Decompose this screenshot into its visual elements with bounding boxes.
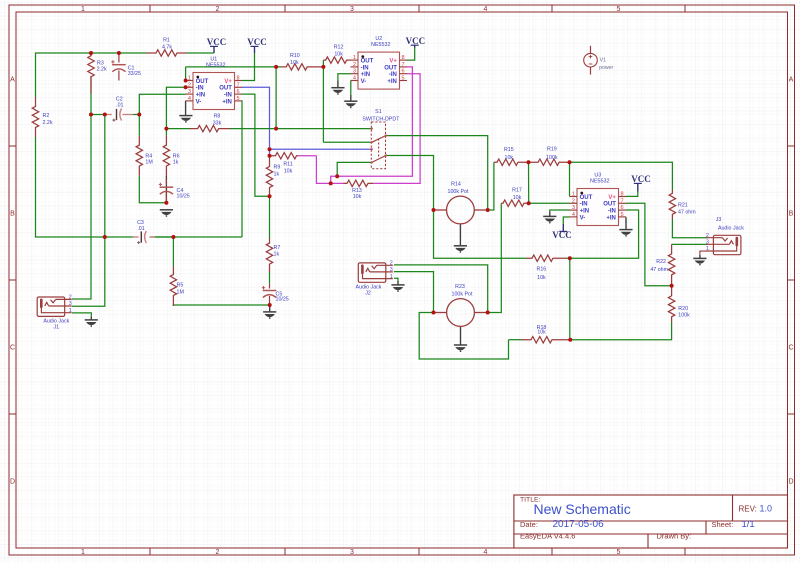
svg-text:47 ohm: 47 ohm — [678, 209, 696, 215]
svg-text:2: 2 — [188, 82, 191, 88]
svg-text:100k Pot: 100k Pot — [448, 189, 469, 195]
svg-text:R19: R19 — [547, 146, 557, 152]
svg-text:REV:: REV: — [739, 505, 757, 514]
svg-text:100k Pot: 100k Pot — [452, 292, 473, 298]
svg-text:R10: R10 — [290, 53, 300, 59]
svg-text:R14: R14 — [451, 181, 461, 187]
svg-text:R5: R5 — [177, 282, 184, 288]
svg-text:R9: R9 — [274, 165, 281, 171]
svg-text:R11: R11 — [283, 162, 292, 168]
svg-text:-IN: -IN — [361, 65, 369, 71]
svg-text:VCC: VCC — [406, 36, 426, 46]
svg-text:1M: 1M — [177, 290, 184, 296]
svg-text:New Schematic: New Schematic — [534, 501, 631, 517]
svg-text:R22: R22 — [656, 259, 666, 265]
svg-text:2: 2 — [216, 6, 220, 13]
svg-text:Drawn By:: Drawn By: — [657, 532, 692, 541]
svg-text:10/25: 10/25 — [276, 297, 289, 303]
svg-text:R16: R16 — [537, 267, 547, 273]
svg-text:A: A — [10, 77, 15, 84]
svg-text:1: 1 — [188, 76, 191, 82]
svg-text:+IN: +IN — [580, 209, 590, 215]
svg-text:R2: R2 — [43, 113, 50, 119]
svg-text:10k: 10k — [290, 60, 299, 66]
svg-text:J3: J3 — [716, 217, 722, 223]
svg-text:33k: 33k — [213, 120, 222, 126]
svg-text:R17: R17 — [512, 187, 522, 193]
svg-text:+IN: +IN — [222, 99, 232, 105]
svg-text:B: B — [10, 211, 15, 218]
svg-text:V-: V- — [196, 99, 202, 105]
svg-text:R7: R7 — [274, 245, 281, 251]
svg-text:VCC: VCC — [207, 37, 227, 47]
svg-text:V+: V+ — [389, 59, 397, 65]
svg-text:J2: J2 — [365, 291, 371, 297]
svg-text:D: D — [10, 479, 15, 486]
svg-text:33/25: 33/25 — [128, 71, 141, 77]
svg-text:1/1: 1/1 — [742, 519, 755, 530]
svg-text:OUT: OUT — [580, 195, 593, 201]
svg-text:R21: R21 — [678, 203, 688, 209]
svg-text:.01: .01 — [137, 226, 144, 232]
svg-text:6: 6 — [402, 69, 405, 75]
svg-text:1: 1 — [81, 6, 85, 13]
svg-text:2: 2 — [353, 62, 356, 68]
svg-text:2: 2 — [572, 198, 575, 204]
svg-text:10k: 10k — [537, 275, 546, 281]
svg-text:1: 1 — [81, 549, 85, 556]
svg-text:100k: 100k — [678, 312, 690, 318]
svg-text:OUT: OUT — [384, 65, 397, 71]
svg-text:6: 6 — [237, 89, 240, 95]
svg-text:2: 2 — [390, 261, 393, 267]
svg-text:1: 1 — [572, 192, 575, 198]
svg-text:OUT: OUT — [603, 202, 616, 208]
svg-text:power: power — [599, 65, 613, 71]
svg-text:10k: 10k — [334, 51, 343, 57]
svg-text:D: D — [788, 479, 793, 486]
svg-text:Date:: Date: — [520, 520, 538, 529]
svg-text:2: 2 — [216, 549, 220, 556]
svg-text:J1: J1 — [53, 324, 59, 330]
svg-text:-IN: -IN — [608, 209, 616, 215]
svg-text:3: 3 — [390, 267, 393, 273]
svg-text:1.0: 1.0 — [760, 504, 773, 514]
svg-text:100k: 100k — [546, 155, 558, 161]
svg-text:5: 5 — [402, 76, 405, 82]
svg-text:V1: V1 — [600, 58, 606, 64]
svg-text:4: 4 — [484, 549, 488, 556]
svg-text:R12: R12 — [334, 45, 344, 51]
svg-text:2017-05-06: 2017-05-06 — [553, 519, 605, 530]
svg-text:3: 3 — [350, 549, 354, 556]
svg-text:4: 4 — [572, 212, 575, 218]
svg-text:R8: R8 — [214, 114, 221, 120]
svg-text:5: 5 — [617, 6, 621, 13]
svg-text:OUT: OUT — [219, 86, 232, 92]
svg-text:3: 3 — [69, 301, 72, 307]
svg-text:8: 8 — [621, 192, 624, 198]
svg-text:7: 7 — [621, 198, 624, 204]
svg-text:1k: 1k — [173, 159, 179, 165]
svg-text:5: 5 — [621, 212, 624, 218]
svg-text:V+: V+ — [608, 195, 616, 201]
svg-text:-IN: -IN — [389, 72, 397, 78]
svg-text:1: 1 — [706, 246, 709, 252]
svg-text:C: C — [788, 345, 793, 352]
svg-text:+IN: +IN — [606, 215, 616, 221]
svg-text:2: 2 — [69, 295, 72, 301]
svg-text:3: 3 — [188, 89, 191, 95]
svg-text:NE5532: NE5532 — [590, 178, 609, 184]
svg-text:1k: 1k — [274, 171, 280, 177]
svg-text:1: 1 — [353, 55, 356, 61]
svg-text:R23: R23 — [455, 284, 465, 290]
svg-text:2: 2 — [706, 233, 709, 239]
svg-text:10k: 10k — [537, 330, 546, 336]
svg-text:10k: 10k — [513, 195, 522, 201]
svg-text:2.2k: 2.2k — [43, 120, 53, 126]
svg-text:3: 3 — [706, 240, 709, 246]
svg-text:VCC: VCC — [631, 174, 651, 184]
svg-text:V-: V- — [361, 79, 367, 85]
svg-text:NE5532: NE5532 — [371, 42, 390, 48]
svg-text:EasyEDA V4.4.6: EasyEDA V4.4.6 — [520, 532, 575, 541]
svg-text:NE5532: NE5532 — [206, 62, 225, 68]
svg-text:VCC: VCC — [247, 37, 267, 47]
svg-text:B: B — [789, 211, 794, 218]
svg-text:Audio Jack: Audio Jack — [356, 284, 382, 290]
svg-text:+IN: +IN — [361, 72, 371, 78]
svg-text:10k: 10k — [353, 194, 362, 200]
svg-text:8: 8 — [237, 76, 240, 82]
svg-text:.01: .01 — [116, 102, 123, 108]
svg-text:S1: S1 — [375, 109, 382, 115]
svg-text:VCC: VCC — [552, 230, 572, 240]
svg-text:OUT: OUT — [361, 59, 374, 65]
svg-text:3: 3 — [572, 205, 575, 211]
svg-text:+IN: +IN — [387, 79, 397, 85]
svg-text:1: 1 — [69, 308, 72, 314]
svg-text:C: C — [10, 345, 15, 352]
svg-text:10k: 10k — [284, 168, 293, 174]
svg-text:-IN: -IN — [224, 93, 232, 99]
svg-text:4: 4 — [353, 76, 356, 82]
svg-text:1: 1 — [390, 274, 393, 280]
svg-text:V+: V+ — [224, 79, 232, 85]
svg-text:1k: 1k — [274, 252, 280, 258]
svg-text:8: 8 — [402, 55, 405, 61]
svg-text:R1: R1 — [163, 38, 170, 44]
svg-text:-IN: -IN — [580, 202, 588, 208]
svg-text:5: 5 — [617, 549, 621, 556]
svg-text:6: 6 — [621, 205, 624, 211]
svg-text:OUT: OUT — [196, 79, 209, 85]
svg-text:Sheet:: Sheet: — [712, 520, 734, 529]
svg-text:7: 7 — [237, 82, 240, 88]
svg-text:5: 5 — [237, 96, 240, 102]
svg-text:7: 7 — [402, 62, 405, 68]
svg-text:3: 3 — [353, 69, 356, 75]
svg-text:3: 3 — [350, 6, 354, 13]
svg-text:4: 4 — [188, 96, 191, 102]
svg-text:10/25: 10/25 — [177, 193, 190, 199]
svg-text:1M: 1M — [145, 159, 152, 165]
svg-text:2.2k: 2.2k — [97, 66, 107, 72]
svg-text:R20: R20 — [678, 306, 688, 312]
svg-text:Audio Jack: Audio Jack — [718, 225, 744, 231]
svg-text:A: A — [789, 77, 794, 84]
svg-text:-IN: -IN — [196, 86, 204, 92]
svg-text:10k: 10k — [505, 155, 514, 161]
svg-text:4.7k: 4.7k — [162, 45, 172, 51]
svg-text:V-: V- — [580, 215, 586, 221]
svg-text:47 ohm: 47 ohm — [650, 267, 668, 273]
svg-text:+IN: +IN — [196, 93, 206, 99]
svg-text:4: 4 — [484, 6, 488, 13]
svg-text:R15: R15 — [504, 147, 514, 153]
svg-text:SWITCH-DPDT: SWITCH-DPDT — [362, 116, 400, 122]
